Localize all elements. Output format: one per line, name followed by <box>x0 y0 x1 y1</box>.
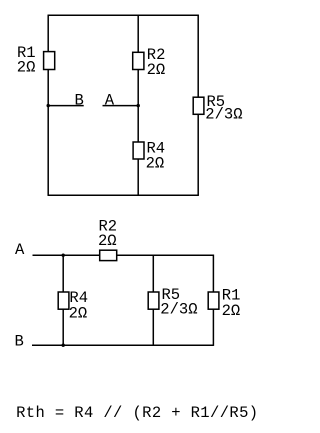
wire bottom circuit: bottom rail from B <box>32 344 213 346</box>
svg-text:2/3Ω: 2/3Ω <box>205 105 242 123</box>
svg-text:B: B <box>75 92 84 110</box>
svg-text:2Ω: 2Ω <box>147 61 166 79</box>
resistor R4 (bottom circuit) body <box>58 292 69 309</box>
resistor R2 (top circuit) body <box>133 52 144 69</box>
svg-text:2Ω: 2Ω <box>69 305 88 323</box>
resistor R1 (bottom circuit) body <box>208 292 219 309</box>
wire top circuit: bottom side <box>48 194 199 196</box>
wire top circuit: middle rail <box>137 15 139 195</box>
svg-text:2Ω: 2Ω <box>17 59 36 77</box>
resistor R4 (top circuit) body <box>133 142 144 159</box>
node junction dot bottom of R4 branch <box>62 344 65 347</box>
svg-text:Rth = R4 // (R2 + R1//R5): Rth = R4 // (R2 + R1//R5) <box>16 404 258 422</box>
svg-text:A: A <box>105 91 115 109</box>
wire top circuit: left rail <box>47 15 49 195</box>
svg-text:A: A <box>15 241 25 259</box>
wire bottom circuit: R5 branch <box>152 255 154 345</box>
svg-text:2/3Ω: 2/3Ω <box>160 301 197 319</box>
wire to terminal B <box>48 105 83 107</box>
node junction dot top of R4 branch <box>62 254 65 257</box>
svg-text:B: B <box>15 333 24 351</box>
resistor R5 (top circuit) body <box>193 97 204 114</box>
svg-text:2Ω: 2Ω <box>146 154 165 172</box>
resistor R2 (bottom circuit, horizontal) body <box>100 250 117 260</box>
wire bottom circuit: R1 branch (right side) <box>212 255 214 346</box>
resistor R5 (bottom circuit) body <box>148 292 159 309</box>
svg-text:2Ω: 2Ω <box>222 302 241 320</box>
wire top circuit: right rail <box>197 15 199 195</box>
node junction dot at B wire <box>47 104 50 107</box>
svg-text:2Ω: 2Ω <box>98 232 117 250</box>
wire bottom circuit: R4 branch <box>62 255 64 345</box>
wire top circuit: top side <box>48 14 199 16</box>
wire to terminal A <box>103 105 139 107</box>
resistor R1 (top circuit) body <box>44 52 55 70</box>
node junction dot at A wire <box>137 104 140 107</box>
wire bottom circuit: top rail from A <box>33 254 214 256</box>
